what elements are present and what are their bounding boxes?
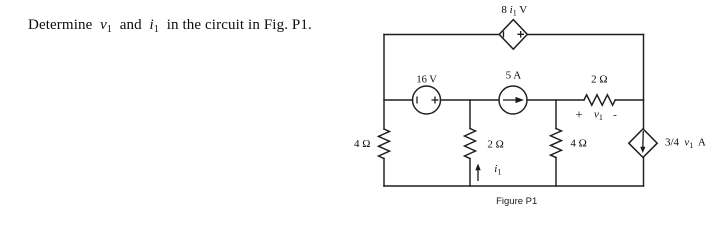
svg-text:3/4 v1 A: 3/4 v1 A bbox=[665, 137, 706, 151]
svg-text:16 V: 16 V bbox=[416, 74, 437, 85]
svg-text:5 A: 5 A bbox=[506, 70, 522, 82]
svg-text:8 i1 V: 8 i1 V bbox=[501, 4, 527, 18]
svg-text:+: + bbox=[575, 108, 582, 122]
svg-text:-: - bbox=[613, 109, 617, 121]
svg-text:4 Ω: 4 Ω bbox=[570, 138, 586, 150]
svg-text:2 Ω: 2 Ω bbox=[487, 139, 503, 151]
svg-text:Figure P1: Figure P1 bbox=[496, 196, 537, 207]
svg-text:4 Ω: 4 Ω bbox=[354, 138, 370, 150]
svg-text:2 Ω: 2 Ω bbox=[591, 73, 607, 85]
svg-text:v1: v1 bbox=[594, 109, 603, 123]
svg-text:i1: i1 bbox=[494, 163, 501, 177]
